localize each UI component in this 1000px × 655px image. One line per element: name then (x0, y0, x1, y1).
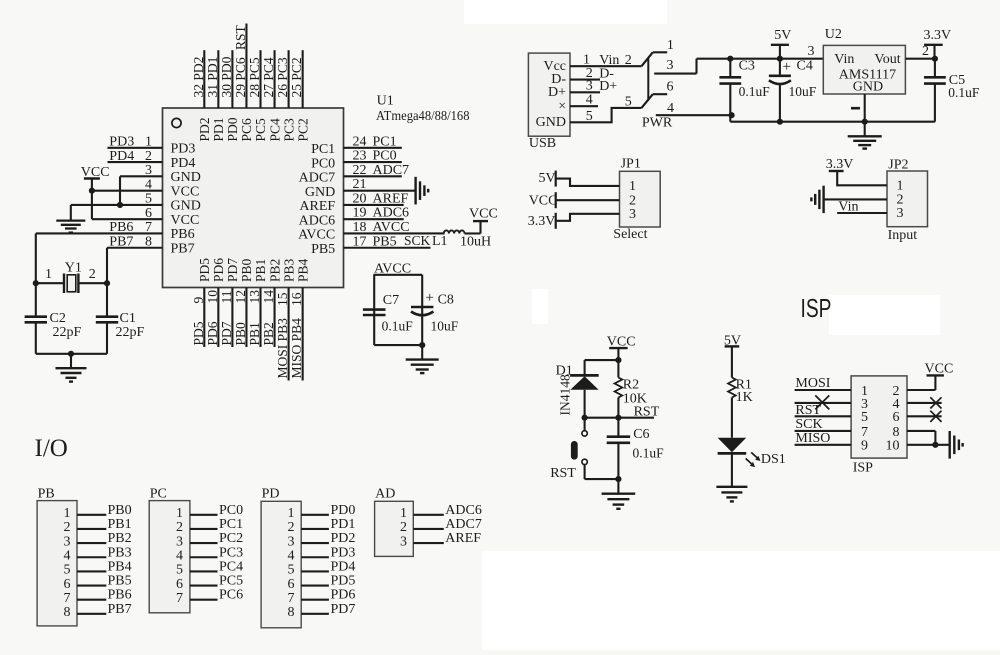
svg-text:PD1: PD1 (331, 517, 356, 532)
svg-text:DS1: DS1 (761, 452, 786, 467)
svg-text:3: 3 (288, 534, 295, 549)
svg-text:C1: C1 (120, 311, 136, 326)
net label PD4 (109, 149, 134, 164)
svg-text:PD2: PD2 (331, 531, 356, 546)
U1 top inside label PD0 (225, 117, 240, 141)
svg-text:1: 1 (288, 506, 295, 521)
crystal pin 1 number (45, 267, 52, 282)
U1 right pin label PC0 (373, 149, 397, 164)
U1 left pin 8 wire (107, 247, 163, 249)
title I/O (35, 435, 68, 462)
JP1 pin 2 number (629, 193, 636, 208)
svg-text:VCC: VCC (529, 194, 558, 209)
U2 label Vout (874, 52, 900, 67)
U1 top inside label PC4 (267, 118, 282, 142)
svg-text:AREF: AREF (373, 191, 409, 206)
capacitor C4 polarized (769, 59, 791, 122)
capacitor C3 (719, 59, 741, 122)
svg-text:PB0: PB0 (233, 322, 248, 346)
svg-text:PB5: PB5 (311, 242, 335, 257)
ISP pin 2 wire to VCC (907, 375, 935, 390)
PB pin 5 number (64, 563, 71, 578)
svg-text:AREF: AREF (445, 531, 481, 546)
net label PD6 at PD (331, 588, 356, 603)
svg-text:1: 1 (64, 506, 71, 521)
U1 left inside label VCC (171, 184, 200, 199)
U1 bottom pin number 13 (247, 290, 262, 304)
net label MOSI at ISP (795, 376, 830, 391)
U1 top pin 31 wire (217, 50, 219, 108)
PC pin 5 number (176, 563, 183, 578)
power symbol VCC at L1 (469, 207, 498, 222)
svg-text:PB4: PB4 (108, 559, 132, 574)
connector JP2 body (887, 171, 928, 227)
LED DS1 (718, 438, 747, 487)
U1 right pin label ADC7 (373, 163, 410, 178)
ISP pin 6 number (893, 410, 900, 425)
ISP pin 4 wire (907, 402, 942, 404)
svg-text:5: 5 (861, 410, 868, 425)
svg-text:18: 18 (353, 220, 367, 235)
PC pin 1 number (176, 506, 183, 521)
U1 top pin label 27 PC4 (261, 57, 276, 97)
label PWR (642, 116, 673, 131)
svg-text:PB1: PB1 (108, 517, 132, 532)
U1 bottom inside label PD5 (197, 258, 212, 282)
svg-text:PB2: PB2 (261, 322, 276, 345)
U1 top pin 28 wire (259, 50, 261, 108)
svg-text:PB6: PB6 (108, 588, 132, 603)
U2 pin 2 wire Vout (905, 58, 935, 60)
U1 right pin number 17 (353, 234, 367, 249)
net label RST at ISP (795, 403, 821, 418)
svg-text:29 PC6: 29 PC6 (233, 57, 248, 97)
net label PB6 at PB (108, 588, 132, 603)
U1 top inside label PC6 (239, 118, 254, 142)
PD pin 7 number (288, 591, 295, 606)
AD pin 2 wire (413, 528, 444, 530)
label Vin (599, 53, 619, 68)
svg-text:VCC: VCC (171, 184, 200, 199)
PB pin 1 wire (77, 514, 106, 516)
U1 right pin label ADC6 (373, 206, 410, 221)
USB pin 4 number (586, 93, 593, 108)
USB inside label D+ (548, 85, 566, 100)
svg-text:6: 6 (176, 577, 183, 592)
label USB (529, 136, 556, 151)
svg-text:USB: USB (529, 136, 556, 151)
svg-text:ADC7: ADC7 (373, 163, 410, 178)
net label SCK at ISP (795, 417, 822, 432)
U1 right pin number 22 (353, 163, 367, 178)
svg-text:22: 22 (353, 163, 367, 178)
U1 bottom inside label PB3 (281, 258, 296, 282)
svg-text:24: 24 (353, 134, 367, 149)
svg-text:6: 6 (145, 206, 152, 221)
PD pin 1 number (288, 506, 295, 521)
U1 right pin number 24 (353, 134, 367, 149)
svg-text:PD3: PD3 (171, 142, 196, 157)
wire Vin to JP2 pin3 (837, 212, 887, 214)
svg-text:PB0: PB0 (239, 258, 254, 282)
net label PB3 at PB (108, 545, 132, 560)
USB pin 2 number (586, 66, 593, 81)
ISP pin 8 number (893, 425, 900, 440)
U1 left pin number 7 (145, 220, 152, 235)
svg-text:PB3: PB3 (281, 258, 296, 282)
PC pin 6 wire (190, 584, 218, 586)
net label PB0 at PB (108, 503, 132, 518)
svg-text:PB7: PB7 (171, 241, 195, 256)
net label PC4 at PC (219, 559, 243, 574)
U1 right pin 22 wire (344, 175, 402, 177)
svg-text:PD7: PD7 (331, 602, 356, 617)
designator U1 (377, 94, 394, 109)
ISP pin 1 number (861, 384, 868, 399)
U1 left pin 4 wire (92, 190, 163, 192)
PD pin 6 number (288, 577, 295, 592)
ground symbol LED (716, 487, 747, 502)
ISP left pin 7 wire (795, 430, 852, 432)
U2 label AMS1117 (839, 68, 896, 83)
svg-text:GND: GND (536, 115, 566, 130)
svg-text:ADC7: ADC7 (445, 517, 482, 532)
svg-text:3.3V: 3.3V (528, 214, 556, 229)
U2 label GND (853, 80, 883, 95)
USB pin 5 wire GND (570, 108, 642, 122)
svg-text:PD4: PD4 (109, 149, 134, 164)
PD pin 4 wire (301, 556, 329, 558)
junction rail C3 (727, 56, 733, 62)
USB pin 3 number (586, 79, 593, 94)
designator D1 (556, 364, 573, 379)
svg-text:1: 1 (629, 179, 636, 194)
capacitor C5 (924, 59, 946, 122)
svg-text:10: 10 (205, 290, 220, 304)
PB pin 4 wire (77, 556, 106, 558)
connector AD label (375, 487, 395, 502)
svg-text:PD1: PD1 (211, 117, 226, 141)
net label PB7 at PB (108, 602, 132, 617)
U1 left pin number 2 (145, 149, 152, 164)
junction pin4 VCC (89, 188, 95, 194)
power symbol 3.3V at Vout (924, 28, 952, 59)
ISP pin 2 number (893, 384, 900, 399)
U1 left pin 5 wire (71, 204, 163, 206)
PB pin 3 wire (77, 542, 106, 544)
U1 right pin number 20 (353, 191, 367, 206)
PB pin 7 wire (77, 599, 106, 601)
svg-text:ATmega48/88/168: ATmega48/88/168 (376, 109, 470, 124)
wire VCC to JP1 pin2 (556, 199, 620, 201)
PB pin 4 number (64, 548, 71, 563)
switch PWR mechanical link (647, 59, 649, 101)
svg-text:5V: 5V (539, 171, 556, 186)
PB pin 3 number (64, 534, 71, 549)
ground symbol at JP2 pin2 (811, 186, 823, 213)
wire AVCC loop (374, 275, 423, 345)
ISP left pin 3 wire (795, 402, 852, 404)
AD pin 1 wire (413, 514, 444, 516)
svg-text:PD3: PD3 (109, 135, 134, 150)
PD pin 8 wire (301, 613, 329, 615)
PD pin 3 number (288, 534, 295, 549)
svg-text:3: 3 (176, 534, 183, 549)
svg-text:I/O: I/O (35, 435, 68, 462)
svg-text:0.1uF: 0.1uF (739, 84, 771, 99)
svg-text:PD7: PD7 (225, 258, 240, 282)
svg-text:2: 2 (625, 53, 632, 68)
svg-text:1: 1 (897, 179, 904, 194)
net label Vin at JP2 (838, 200, 858, 215)
PC pin 3 number (176, 534, 183, 549)
svg-text:2: 2 (288, 520, 295, 535)
svg-text:MOSI PB3: MOSI PB3 (275, 318, 290, 379)
JP1 pin 3 number (629, 207, 636, 222)
net label PD7 at PD (331, 602, 356, 617)
PD pin 2 wire (301, 528, 329, 530)
switch PWR throw 4 wire (656, 114, 732, 116)
U1 bottom inside label PD7 (225, 258, 240, 282)
switch PWR throw 1 stub (653, 51, 667, 53)
microcontroller U1 body (163, 108, 344, 288)
U2 label Vin (834, 52, 854, 67)
svg-text:6: 6 (288, 577, 295, 592)
no-connect X on ISP pin 6 (930, 411, 941, 422)
svg-text:15: 15 (275, 292, 290, 306)
svg-text:ISP: ISP (801, 293, 832, 323)
wire PB6 vertical to crystal (35, 233, 37, 283)
U1 bottom pin 13 wire (259, 288, 261, 348)
U1 right inside label PC1 (311, 142, 335, 157)
U1 right inside label AVCC (298, 228, 335, 243)
USB inside label x (558, 98, 566, 113)
svg-text:8: 8 (893, 425, 900, 440)
svg-text:22pF: 22pF (53, 325, 82, 340)
U1 bottom pin 12 wire (245, 288, 247, 348)
net label ADC6 at AD (445, 503, 482, 518)
svg-text:PB1: PB1 (247, 322, 262, 345)
svg-text:2: 2 (400, 520, 407, 535)
USB pin 2 wire D- (570, 79, 600, 81)
U1 right pin label PB5 (373, 234, 397, 249)
svg-text:PC2: PC2 (219, 531, 243, 546)
svg-text:4: 4 (586, 93, 593, 108)
capacitor C1 (96, 283, 118, 354)
junction rail C4 bottom (777, 119, 783, 125)
ISP pin 10 number (886, 439, 900, 454)
svg-text:3: 3 (64, 534, 71, 549)
U1 left pin 2 wire (108, 161, 163, 163)
svg-text:PC: PC (150, 487, 167, 502)
wire 5V input rail (730, 58, 823, 60)
svg-text:SCK: SCK (795, 417, 822, 432)
U1 bottom pin number 14 (261, 290, 276, 304)
power symbol 5V above C4 (771, 28, 791, 59)
net label PB7 (109, 234, 133, 249)
net label PD5 at PD (331, 574, 356, 589)
svg-text:PD0: PD0 (331, 503, 356, 518)
net label PB2 at PB (108, 531, 132, 546)
ISP pin 6 wire (907, 415, 942, 417)
svg-text:8: 8 (145, 234, 152, 249)
U1 top pin 27 wire (273, 50, 275, 108)
AD pin 3 number (400, 534, 407, 549)
U1 bottom pin label PB1 (247, 322, 262, 345)
U1 top pin 29 wire (245, 24, 247, 109)
U1 top pin label 29 PC6 (233, 57, 248, 97)
power symbol VCC at JP1 (529, 192, 558, 208)
label Select (613, 227, 647, 242)
net label PC1 at PC (219, 517, 243, 532)
svg-text:RST: RST (795, 403, 821, 418)
U1 right pin number 19 (353, 206, 367, 221)
wire GND branch pins 3-5 (119, 176, 121, 205)
svg-text:21: 21 (353, 177, 367, 192)
svg-text:32 PD2: 32 PD2 (191, 57, 206, 98)
AD pin 3 wire (413, 542, 444, 544)
svg-text:7: 7 (176, 591, 183, 606)
U1 top inside label PC5 (253, 118, 268, 142)
svg-text:PD5: PD5 (331, 574, 356, 589)
svg-text:PD2: PD2 (197, 117, 212, 141)
U1 right inside label GND (305, 185, 335, 200)
junction rail U2 GND (862, 119, 868, 125)
U1 bottom pin 9 wire (203, 288, 205, 348)
svg-text:9: 9 (191, 297, 206, 304)
svg-text:PB2: PB2 (267, 259, 282, 282)
svg-text:MOSI: MOSI (795, 376, 830, 391)
designator C7 (383, 293, 399, 308)
svg-text:5: 5 (625, 95, 632, 110)
svg-text:Vout: Vout (874, 52, 900, 67)
junction crystal ground (68, 351, 74, 357)
wire ground rail (730, 121, 935, 123)
PC pin 2 number (176, 520, 183, 535)
U1 right pin 17 wire (344, 247, 431, 249)
label 5 switch common (625, 95, 632, 110)
plus sign of C8 (426, 290, 434, 306)
ISP left pin 9 wire (795, 444, 852, 446)
title ISP (801, 293, 832, 323)
connector USB body (528, 53, 570, 136)
net label PC2 at PC (219, 531, 243, 546)
svg-text:11: 11 (219, 291, 234, 304)
value 10uH of L1 (460, 235, 491, 250)
wire L1 to VCC (465, 221, 481, 233)
USB inside label D- (551, 72, 566, 87)
value 0.1uF of C6 (633, 445, 665, 460)
U1 bottom pin number 10 (205, 290, 220, 304)
PB pin 2 number (64, 520, 71, 535)
svg-text:2: 2 (89, 267, 96, 282)
svg-text:1: 1 (45, 267, 52, 282)
U1 left inside label PD4 (171, 156, 196, 171)
svg-text:PD3: PD3 (331, 545, 356, 560)
svg-text:U2: U2 (825, 27, 842, 42)
net label PB5 at PB (108, 574, 132, 589)
no-connect X on ISP pin 4 (930, 397, 941, 408)
svg-text:4: 4 (145, 177, 152, 192)
U1 bottom pin number 16 (289, 292, 304, 306)
svg-text:PB: PB (38, 487, 55, 502)
svg-text:PD7: PD7 (219, 321, 234, 345)
svg-text:PB6: PB6 (171, 227, 195, 242)
svg-text:8: 8 (64, 605, 71, 620)
U1 left inside label PB7 (171, 241, 195, 256)
U1 bottom pin number 12 (233, 290, 248, 304)
PB pin 5 wire (77, 570, 106, 572)
junction crystal left (33, 280, 39, 286)
U1 top pin label 30 PD0 (219, 56, 234, 97)
U1 top pin 26 wire (288, 50, 290, 108)
svg-text:5: 5 (586, 109, 593, 124)
designator Y1 (65, 261, 82, 276)
svg-text:1K: 1K (736, 390, 753, 405)
label D+ (599, 79, 617, 94)
designator U2 (825, 27, 842, 42)
svg-text:AVCC: AVCC (298, 228, 335, 243)
svg-text:PC4: PC4 (267, 118, 282, 142)
PC pin 7 wire (190, 599, 218, 601)
wire throw3 riser to rail (697, 59, 731, 74)
switch PWR terminal 1 number (667, 38, 674, 53)
designator C2 (50, 311, 66, 326)
U1 left pin 7 wire (36, 232, 163, 234)
svg-text:23: 23 (353, 149, 367, 164)
wire 3.3V to JP1 pin3 (556, 214, 620, 221)
U1 right inside label PB5 (311, 242, 335, 257)
svg-text:ADC6: ADC6 (299, 213, 336, 228)
U2 GND pin wire (864, 94, 866, 122)
PC pin 3 wire (190, 542, 218, 544)
value 0.1uF of C5 (948, 85, 980, 100)
net label PC6 at PC (219, 588, 243, 603)
ISP pin 10 wire to ground (907, 444, 949, 446)
connector JP1 body (620, 171, 661, 227)
svg-text:RST: RST (634, 404, 660, 419)
U1 right inside label AREF (299, 199, 335, 214)
ISP pin 3 number (861, 397, 868, 412)
U1 top inside label PD1 (211, 117, 226, 141)
svg-text:GND: GND (171, 199, 201, 214)
value IN4148 of D1 (558, 374, 573, 415)
svg-text:26 PC3: 26 PC3 (275, 57, 290, 97)
JP1 pin 1 number (629, 179, 636, 194)
power symbol 3.3V at JP2 (826, 157, 854, 172)
white background patch right of ISP title (829, 295, 940, 335)
connector AD body (375, 501, 414, 556)
svg-text:10uH: 10uH (460, 235, 491, 250)
svg-text:2: 2 (922, 44, 929, 59)
net label PB4 at PB (108, 559, 132, 574)
PD pin 3 wire (301, 542, 329, 544)
U1 right pin label AVCC (373, 220, 410, 235)
switch PWR pole A arm (642, 52, 653, 66)
svg-text:7: 7 (288, 591, 295, 606)
pushbutton RST (571, 418, 587, 479)
svg-text:0.1uF: 0.1uF (948, 85, 980, 100)
PB pin 8 wire (77, 613, 106, 615)
U1 top inside label PC2 (295, 118, 310, 141)
switch PWR throw 6 stub (653, 93, 667, 95)
net label AREF at AD (445, 531, 481, 546)
svg-text:Input: Input (888, 228, 918, 243)
svg-text:3: 3 (667, 58, 674, 73)
USB pin 4 stub (570, 105, 598, 107)
svg-text:4: 4 (288, 548, 295, 563)
net label AVCC (374, 262, 411, 277)
